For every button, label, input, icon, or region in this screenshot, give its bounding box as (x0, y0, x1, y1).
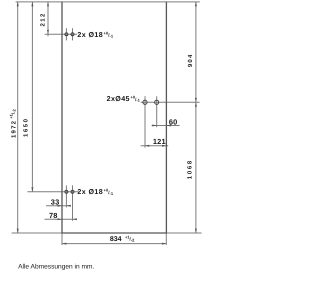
svg-text:834+1/-2: 834+1/-2 (110, 234, 135, 243)
dimension line 60 (152, 125, 180, 127)
svg-text:60: 60 (169, 117, 178, 126)
arrow 1650 top (31, 2, 33, 6)
svg-text:1650: 1650 (23, 117, 30, 137)
part outline right edge (165, 2, 167, 233)
part outline bottom edge (61, 232, 167, 234)
big holes horizontal centerline (141, 101, 200, 103)
arrow 904 top (195, 2, 197, 6)
top holes horizontal centerline (45, 33, 77, 35)
lower hole 2 vertical centerline (72, 185, 74, 221)
arrow 1972 top (17, 2, 19, 6)
dimension line 33 (46, 205, 71, 207)
arrow 1068 bottom (195, 229, 197, 233)
bottom extension line right (166, 232, 201, 234)
svg-text:78: 78 (49, 211, 58, 220)
dimension line 904 / 1068 (195, 2, 197, 233)
arrow 78 outside-right (73, 218, 77, 220)
hole Ø18 top-1 (65, 33, 68, 36)
arrow 60 outside-left (152, 125, 156, 127)
hole Ø45-2 (155, 100, 159, 104)
svg-text:2x Ø18+0/-1: 2x Ø18+0/-1 (77, 30, 113, 39)
arrow 121 right (162, 145, 166, 147)
arrow 1650 bottom (31, 187, 33, 191)
arrow 212 bottom (47, 30, 49, 34)
arrow 121 left (145, 145, 149, 147)
arrow 834 left (62, 243, 66, 245)
svg-text:212: 212 (40, 12, 47, 26)
arrow 904 bottom (195, 98, 197, 102)
arrow 33 outside-left (58, 205, 62, 207)
arrow 212 top (47, 2, 49, 6)
hole Ø18 bottom-2 (71, 190, 74, 193)
arrow 834 right (162, 243, 166, 245)
dimension line 834 (62, 243, 166, 245)
svg-text:1972+1/-2: 1972+1/-2 (8, 108, 17, 138)
hole Ø18 bottom-1 (65, 190, 68, 193)
arrow 1068 top (195, 102, 197, 106)
arrow 60 outside-right (166, 125, 170, 127)
lower hole 1 vertical centerline (65, 185, 67, 207)
svg-text:Alle Abmessungen in mm.: Alle Abmessungen in mm. (18, 263, 94, 270)
hole Ø45-1 (143, 100, 147, 104)
dimension line 78 (45, 218, 75, 220)
big hole 2 vertical centerline (156, 96, 158, 127)
arrow 33 outside-right (66, 205, 70, 207)
left edge extension below (61, 233, 63, 245)
lower holes horizontal centerline (27, 191, 78, 193)
big hole 1 vertical centerline (144, 96, 146, 147)
svg-text:2x Ø18+0/-1: 2x Ø18+0/-1 (77, 188, 113, 197)
part outline left edge (61, 2, 63, 233)
top extension line (16, 1, 200, 3)
arrow 78 outside-left (58, 218, 62, 220)
dimension line 1972 (17, 2, 19, 233)
dimension line 121 (141, 145, 169, 147)
top hole 2 vertical centerline (72, 28, 74, 40)
dimension line 1650 (31, 2, 33, 192)
svg-text:121: 121 (153, 137, 166, 146)
svg-text:904: 904 (187, 53, 194, 67)
arrow 1972 bottom (17, 229, 19, 233)
svg-text:1068: 1068 (187, 159, 194, 179)
top hole 1 vertical centerline (65, 28, 67, 40)
svg-text:33: 33 (51, 198, 60, 207)
hole Ø18 top-2 (71, 33, 74, 36)
svg-text:2xØ45+0/-1: 2xØ45+0/-1 (107, 95, 141, 104)
bottom extension line left (12, 232, 62, 234)
right edge extension below (165, 233, 167, 245)
dimension line 212 (47, 2, 49, 36)
